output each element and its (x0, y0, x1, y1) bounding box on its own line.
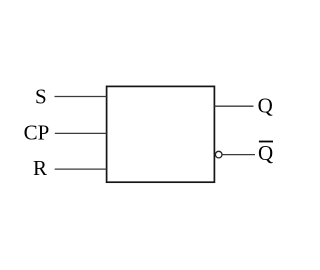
wire CP input (55, 132, 107, 134)
svg-text:R: R (33, 156, 47, 180)
wire R input (55, 168, 107, 170)
svg-text:Q: Q (258, 93, 273, 117)
svg-text:S: S (35, 84, 47, 108)
inversion bubble on Qbar (215, 151, 222, 158)
wire S input (55, 96, 107, 98)
wire Q output (214, 105, 253, 107)
wire Qbar output (222, 154, 255, 156)
flip-flop body U1 (107, 86, 215, 182)
svg-text:CP: CP (24, 121, 50, 145)
overline of Qbar (259, 141, 273, 143)
svg-text:Q: Q (258, 141, 273, 165)
